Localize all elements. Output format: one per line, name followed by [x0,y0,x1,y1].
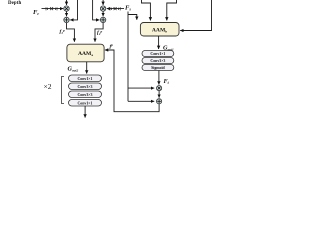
block Conv3x3 third left [69,91,102,98]
svg-text:fp: fp [110,43,114,50]
wire Fs branch into AAMb corner [128,15,137,20]
bracket for repeated convs [62,77,65,104]
wire feedback into AAMa right as fp [105,50,159,112]
wire Fc to multiply X1 [42,8,64,10]
block Conv1x1 fourth left [69,100,102,107]
wire right side input into AAMb [180,0,211,31]
wire P2 to AAMa top right [95,23,103,42]
svg-text:Conv3×3: Conv3×3 [78,85,93,89]
wire P1 to AAMa top left [67,23,75,42]
wire AAMb to right conv stack [158,36,160,49]
add circle P3 [157,99,162,104]
svg-text:f1p: f1p [60,28,66,35]
wire conv stack output down [84,106,86,118]
multiply circle X1 [64,6,69,11]
block Conv3x3 second left [69,83,102,90]
wire Sigmoid output into X3 [158,71,160,85]
wire Fs to multiply X2 [107,8,124,10]
wire top input into X1 [66,0,68,5]
wire X2 to add P2 [102,11,104,16]
multiply circle X2 [100,6,105,11]
add circle P2 [100,17,105,22]
block Sigmoid right [142,65,174,71]
wire Fs branch into X3 [128,87,154,89]
annotation on Fs wire [110,7,120,10]
svg-text:Fc: Fc [33,9,39,16]
wire cross input into P2 [93,0,100,20]
svg-text:Depth: Depth [8,1,21,6]
block Conv1x1 first left [69,75,102,82]
svg-text:Conv1×1: Conv1×1 [150,52,165,56]
svg-text:Conv3×3: Conv3×3 [150,59,165,63]
wire X1 to add P1 [66,11,68,16]
block AAMb [140,23,179,37]
svg-text:Gout2: Gout2 [68,66,79,73]
svg-text:Fs: Fs [125,5,131,12]
svg-text:Conv1×1: Conv1×1 [78,77,93,81]
svg-text:AAMa: AAMa [78,51,93,57]
svg-text:Ft: Ft [164,78,170,85]
wire top right input into AAMb [167,0,177,21]
wire X3 to P3 [158,91,160,98]
annotation on Fc wire [46,7,57,10]
wire AAMa to conv stack [86,62,88,74]
add circle P1 [64,17,69,22]
wire cross input into P1 [70,0,77,20]
wire Fs branch into P3 [128,100,154,102]
wire top input into X2 [102,0,104,5]
svg-text:Conv3×3: Conv3×3 [78,93,93,97]
svg-text:Conv1×1: Conv1×1 [78,101,93,105]
svg-text:f2p: f2p [97,29,103,36]
block AAMa [67,44,104,62]
wire top left input into AAMb [142,0,151,21]
multiply circle X3 [157,86,162,91]
svg-text:×2: ×2 [44,82,52,91]
svg-text:AAMb: AAMb [152,27,167,33]
block Conv1x1 right [142,51,174,57]
block Conv3x3 right [142,58,174,64]
svg-text:Sigmoid: Sigmoid [151,66,165,70]
wire Fs branch down [127,12,129,102]
